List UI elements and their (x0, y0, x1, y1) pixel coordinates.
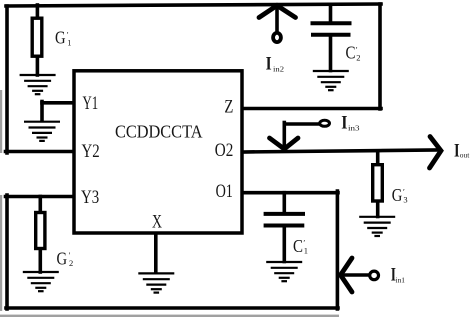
svg-text:I: I (266, 55, 272, 75)
svg-text:in1: in1 (396, 275, 406, 284)
svg-text:3: 3 (403, 194, 407, 204)
svg-text:2: 2 (69, 258, 73, 268)
svg-text:G: G (392, 185, 403, 205)
svg-text:out: out (460, 151, 470, 160)
svg-text:1: 1 (304, 246, 308, 256)
svg-text:I: I (454, 142, 460, 162)
svg-text:C: C (293, 236, 303, 256)
svg-text:C: C (346, 43, 356, 63)
svg-text:2: 2 (356, 52, 360, 62)
svg-text:1: 1 (67, 37, 71, 47)
svg-text:Y2: Y2 (82, 142, 100, 162)
svg-text:G: G (55, 28, 66, 48)
svg-text:I: I (341, 114, 347, 134)
svg-text:O1: O1 (216, 182, 233, 202)
svg-text:Y3: Y3 (81, 188, 99, 208)
svg-text:O2: O2 (215, 141, 234, 161)
svg-text:X: X (152, 213, 162, 233)
svg-text:G: G (57, 248, 68, 268)
svg-text:Z: Z (224, 98, 233, 118)
svg-text:Y1: Y1 (83, 94, 99, 114)
svg-text:in2: in2 (273, 64, 284, 73)
svg-text:in3: in3 (348, 124, 360, 133)
svg-text:CCDDCCTA: CCDDCCTA (115, 121, 203, 141)
